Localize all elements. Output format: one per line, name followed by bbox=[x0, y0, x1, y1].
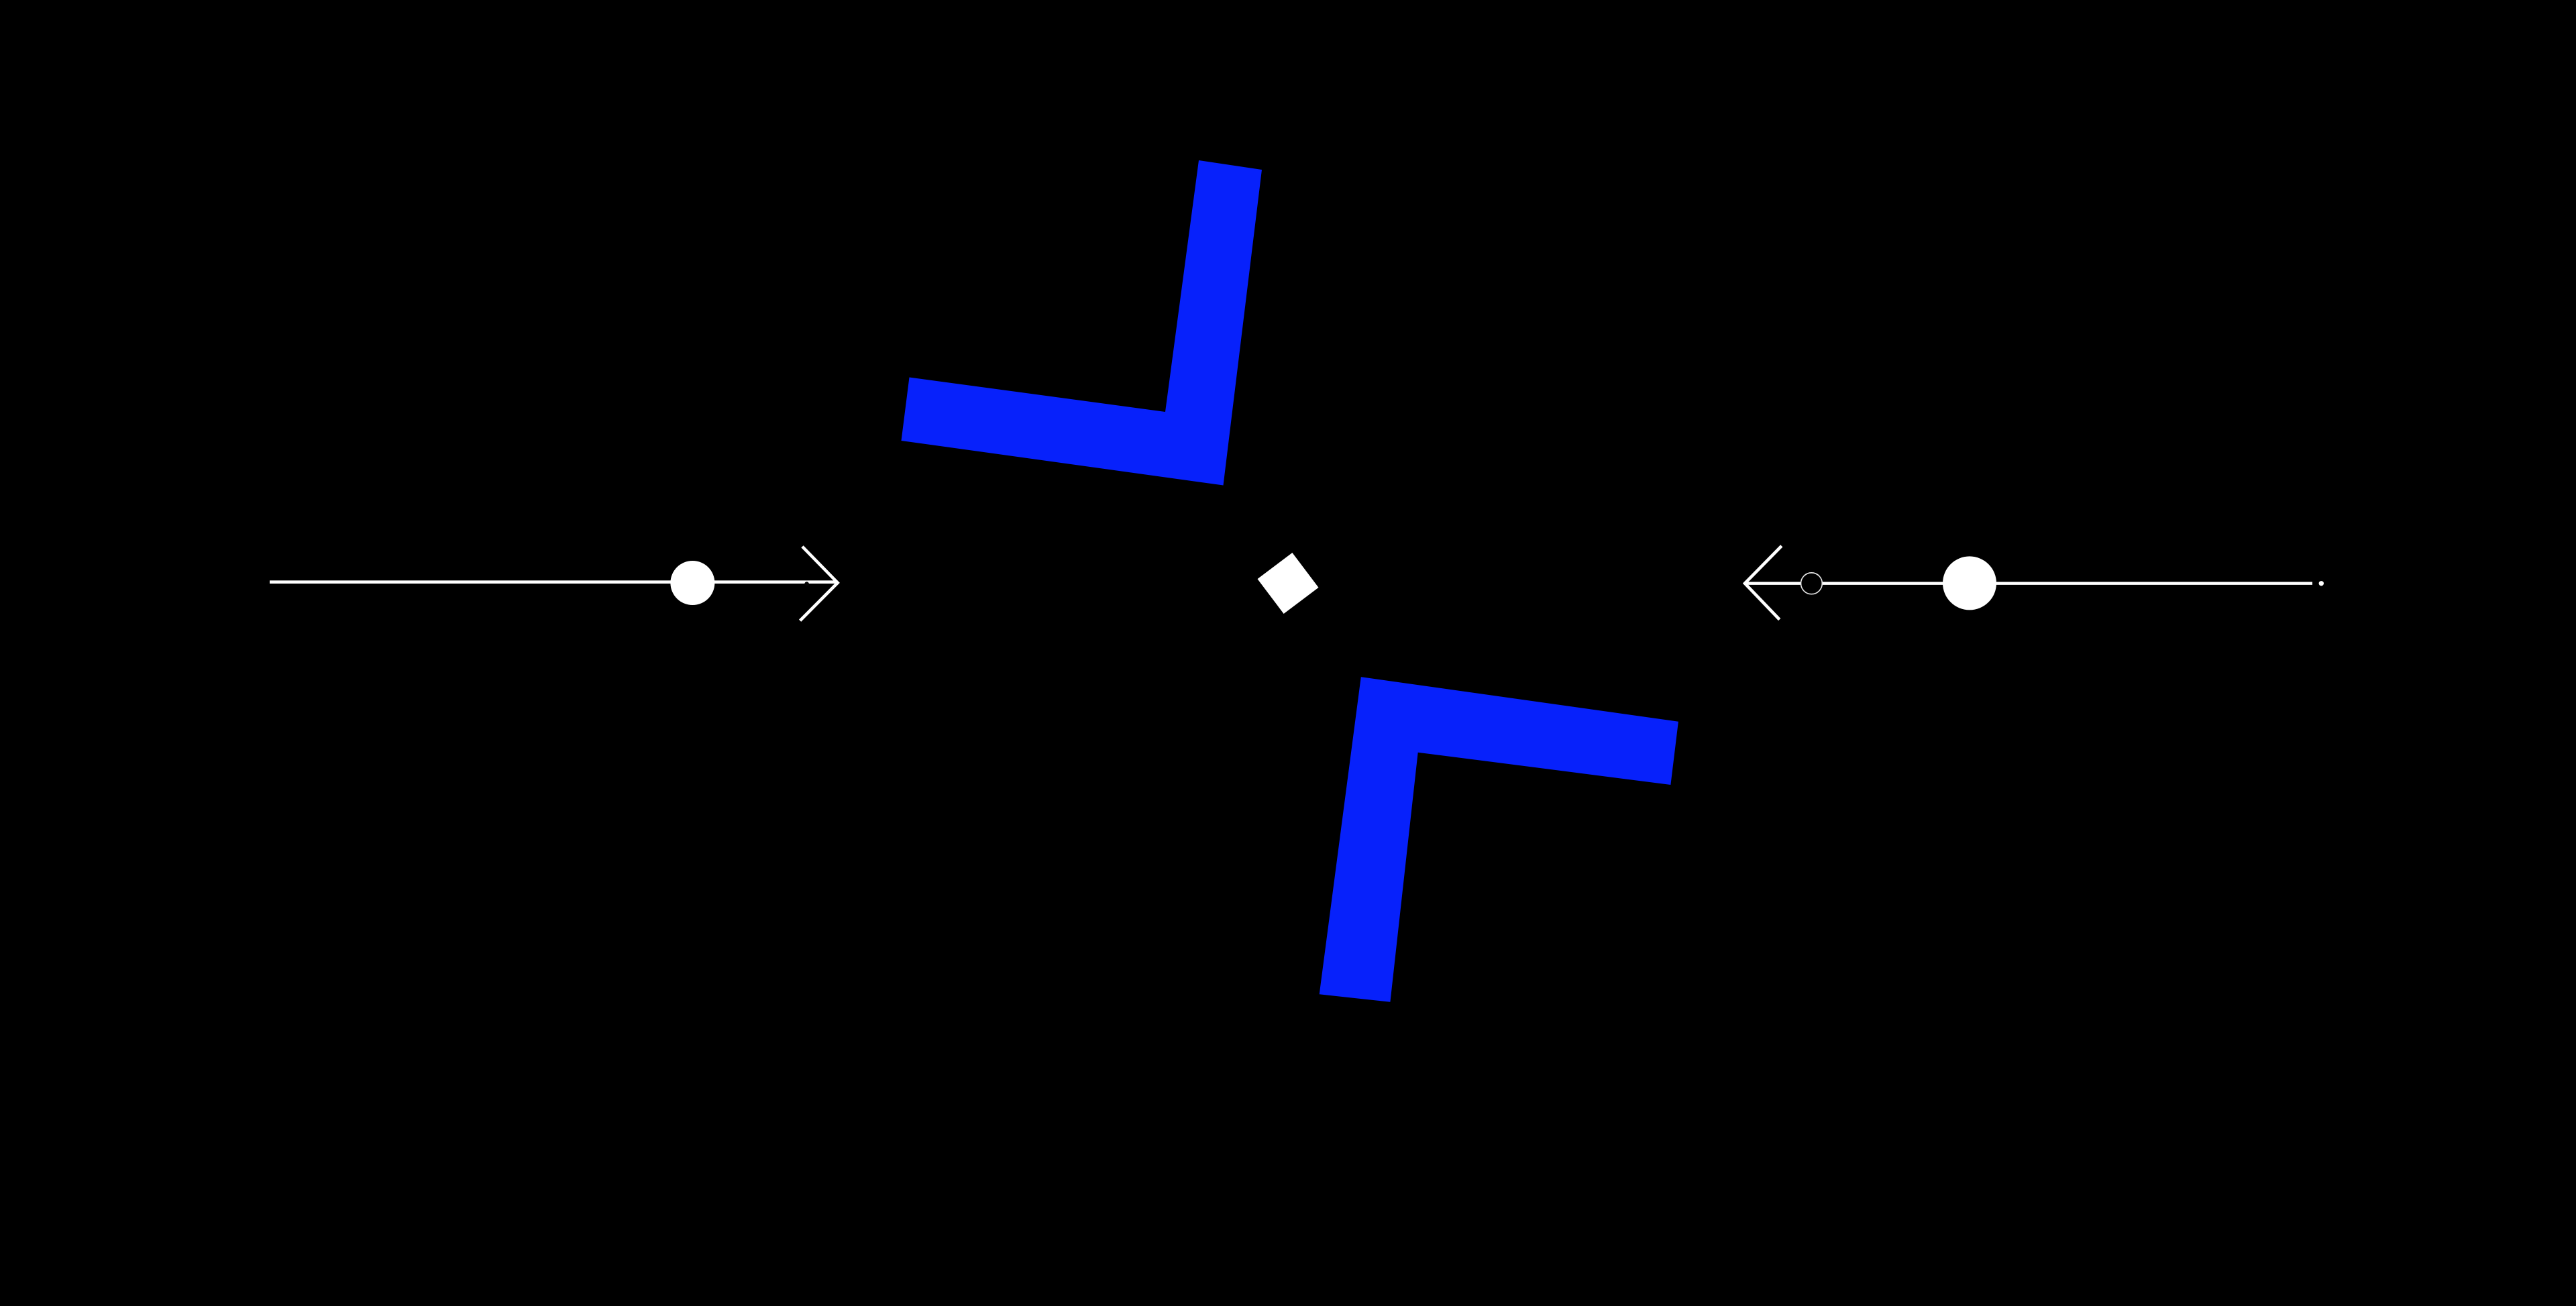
upper blue L bracket bbox=[902, 160, 1263, 486]
node left white circle bbox=[670, 561, 714, 605]
node small white end dot bbox=[2319, 581, 2324, 586]
wire right horizontal line bbox=[1745, 582, 2312, 585]
arrowhead right-pointing chevron bbox=[800, 547, 838, 621]
lower blue L bracket bbox=[1320, 677, 1678, 1002]
wire left horizontal line bbox=[270, 580, 838, 584]
node small black dot on left line bbox=[804, 582, 809, 586]
diamond white rotated square at center bbox=[1257, 553, 1318, 614]
node ring outline on right line bbox=[1801, 573, 1823, 594]
arrowhead left-pointing chevron bbox=[1745, 546, 1782, 620]
node right big white circle bbox=[1943, 556, 1996, 610]
